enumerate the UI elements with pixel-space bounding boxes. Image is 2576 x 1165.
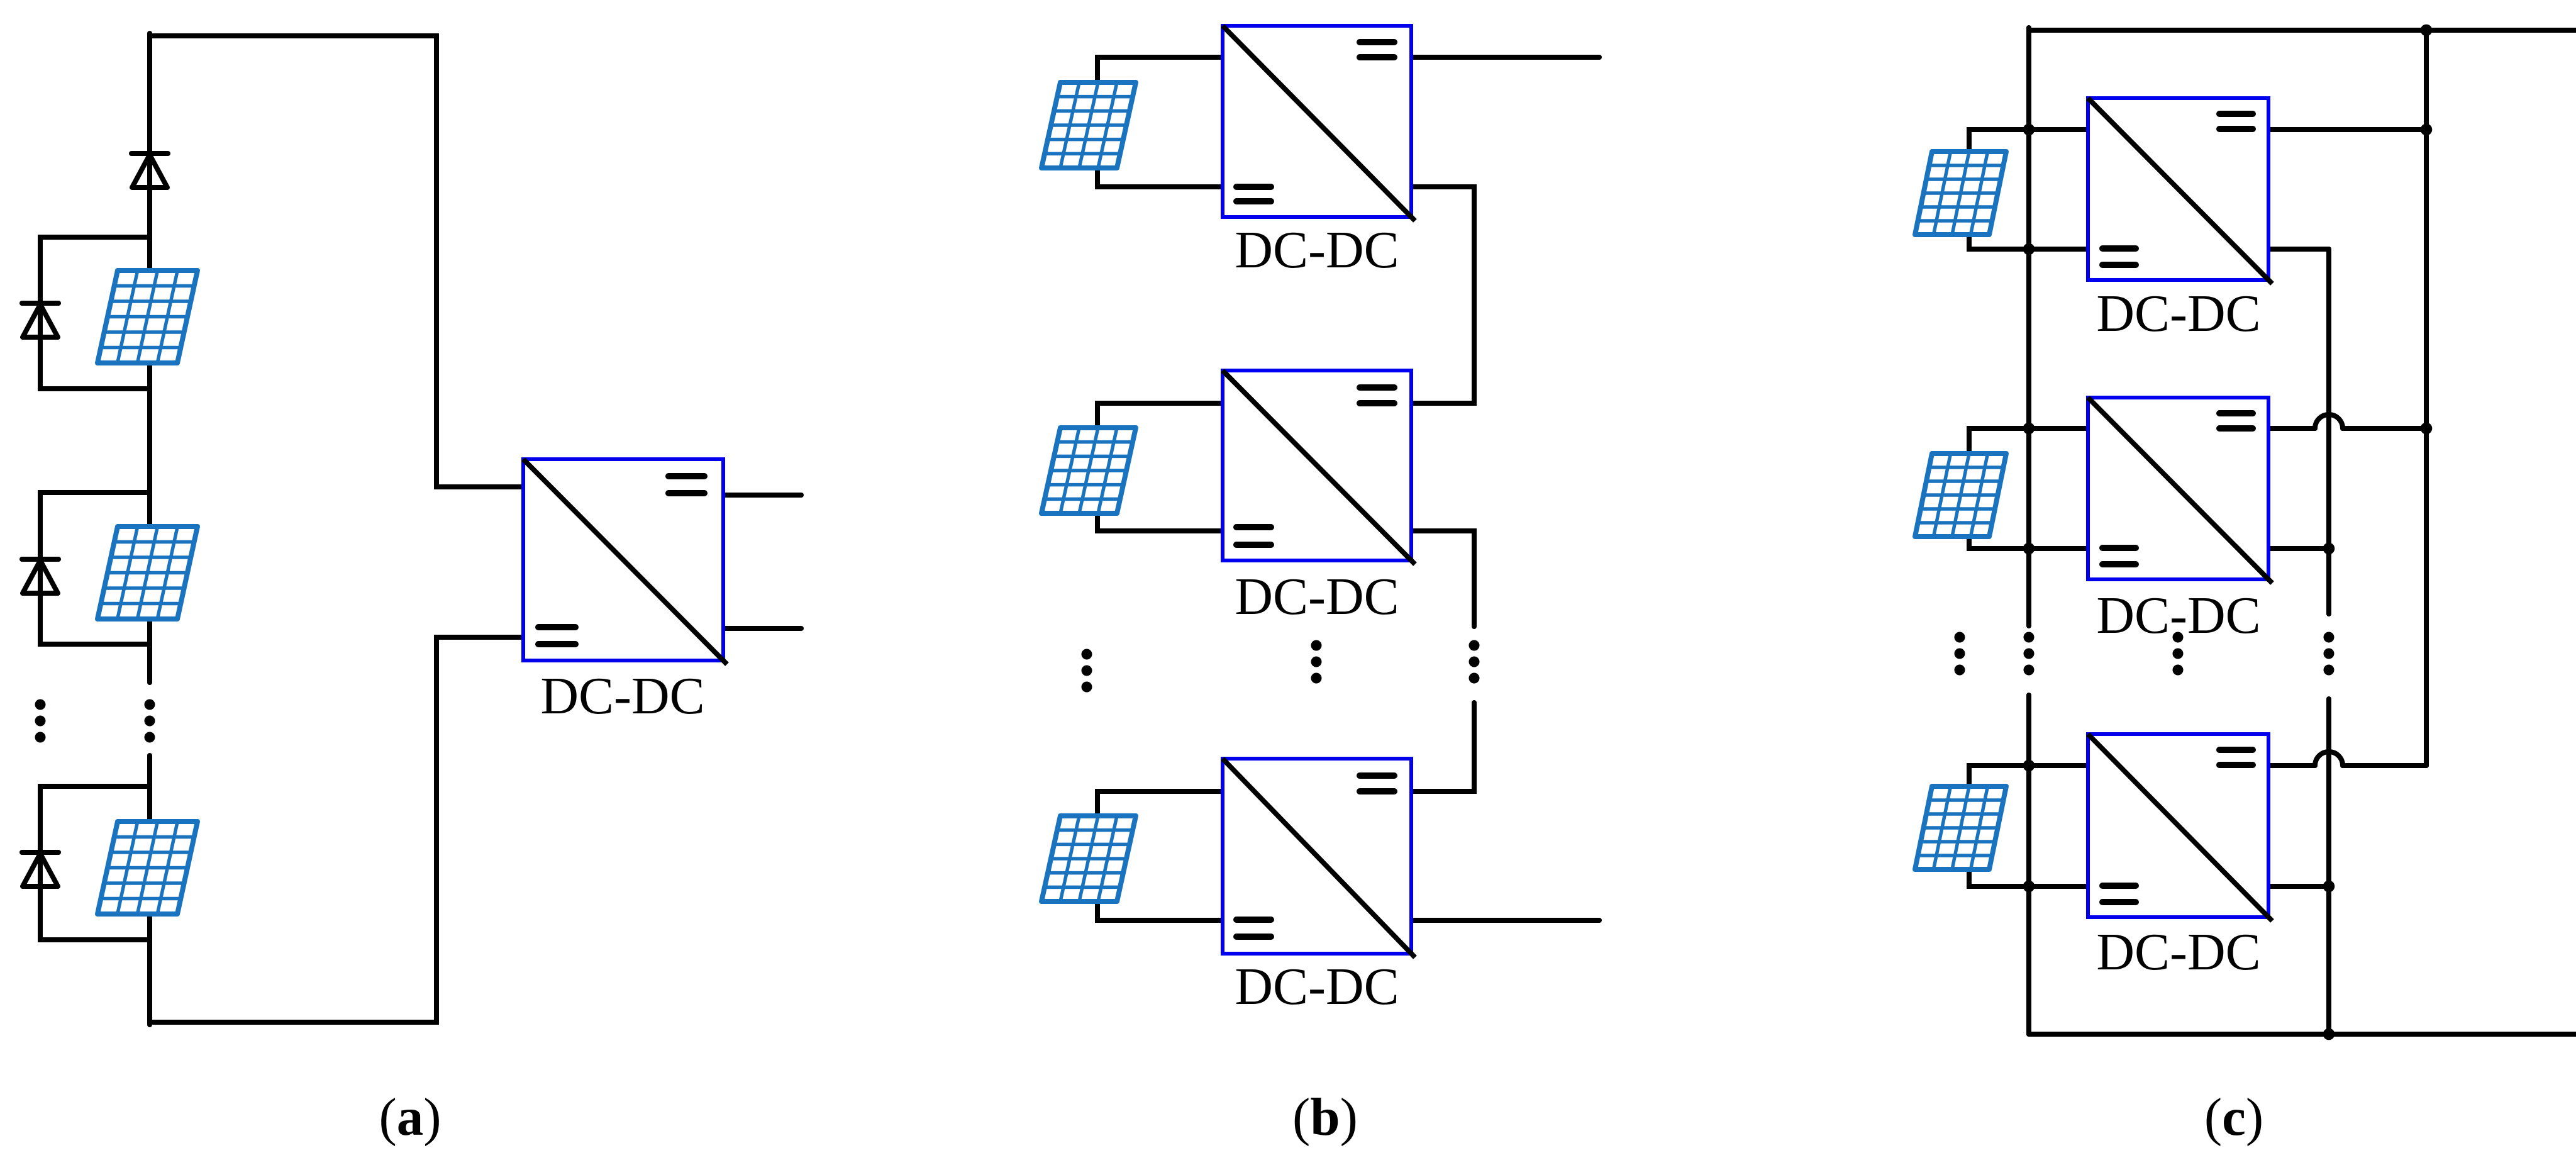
svg-text:(a): (a)	[379, 1088, 441, 1147]
PV module 2 (c)	[1915, 454, 2006, 537]
wire: bypass loop 3 (a)	[40, 786, 150, 940]
DC-DC converter U1 box (a)	[523, 459, 727, 664]
ellipsis dots neg bus column (c)	[2324, 632, 2334, 676]
PV module 1 (b)	[1041, 82, 1136, 168]
wire: bottom bus (c)	[2029, 1032, 2576, 1037]
wire: bypass loop 2 (a)	[40, 493, 150, 644]
PV module 3 (c)	[1915, 786, 2006, 869]
wire: neg output bus upper (c)	[2326, 249, 2331, 614]
wire: unit3 top input (c)	[1969, 766, 2088, 786]
diode D4 bypass diode 3 (a)	[22, 852, 58, 886]
junction dot unit2 top output on pos bus (c)	[2421, 423, 2433, 435]
PV module 1 (a)	[97, 270, 197, 363]
PV module 2 (a)	[97, 527, 197, 619]
wire: unit1 bottom input (b)	[1097, 168, 1223, 187]
wire: top bus (c)	[2029, 28, 2576, 33]
wire: bottom bus (a)	[150, 637, 523, 1022]
wire: bypass loop 1 (a)	[40, 237, 150, 389]
wire: unit3 bottom input (b)	[1097, 901, 1223, 920]
ellipsis dots panel column (c)	[1955, 632, 1965, 676]
svg-text:DC-DC: DC-DC	[540, 667, 704, 725]
wire: unit3 top input (b)	[1097, 791, 1223, 816]
junction dot unit1 top output on pos bus (c)	[2421, 124, 2433, 136]
junction dot unit3 top input (c)	[2023, 760, 2035, 772]
svg-text:DC-DC: DC-DC	[1235, 567, 1399, 626]
ellipsis dots left column (a)	[35, 700, 46, 743]
wire: left input bus upper (c)	[2026, 28, 2031, 626]
junction dot unit2 bottom output on neg bus (c)	[2323, 543, 2335, 555]
PV module 2 (b)	[1041, 428, 1136, 513]
wire hop: unit3 top output over neg bus (c)	[2315, 752, 2343, 766]
junction dot unit2 bottom input (c)	[2023, 543, 2035, 555]
PV module 3 (a)	[97, 822, 197, 914]
wire: unit2 bottom output (c)	[2268, 546, 2329, 551]
wire: unit2 bottom input (c)	[1969, 537, 2088, 549]
ellipsis dots converter column (b)	[1311, 640, 1322, 684]
ellipsis dots panel column (b)	[1082, 649, 1092, 693]
junction dot neg bus on bottom bus (c)	[2323, 1028, 2335, 1040]
wire: left input bus lower (c)	[2026, 695, 2031, 1034]
DC-DC converter B2 box	[1223, 371, 1415, 564]
wire: unit3 bottom output to grid (b)	[1411, 918, 1599, 923]
wire: unit3 bottom output (c)	[2268, 884, 2329, 889]
DC-DC converter C2 box	[2088, 398, 2272, 583]
junction dot unit1 top input (c)	[2023, 124, 2035, 136]
PV module 3 (b)	[1041, 816, 1136, 901]
wire: unit2 top input (b)	[1097, 403, 1223, 428]
wire: PV string vertical upper (a)	[147, 33, 152, 683]
wire hop: unit2 top output over neg bus (c)	[2315, 415, 2343, 428]
wire: unit1 top output to grid (b)	[1411, 55, 1599, 60]
svg-text:(c): (c)	[2204, 1088, 2263, 1147]
wire: unit2 top output right of hop (c)	[2343, 426, 2426, 431]
wire: unit3 top output left of hop (c)	[2268, 763, 2315, 768]
wire: unit2 bottom input (b)	[1097, 513, 1223, 531]
DC-DC converter B3 box	[1223, 759, 1415, 957]
wire: unit3 bottom input (c)	[1969, 869, 2088, 886]
ellipsis dots series-link column (b)	[1469, 640, 1480, 684]
svg-text:DC-DC: DC-DC	[2096, 923, 2260, 981]
DC-DC converter C3 box	[2088, 734, 2272, 921]
svg-text:DC-DC: DC-DC	[1235, 957, 1399, 1016]
wire: unit1 top input (b)	[1097, 57, 1223, 82]
wire: series link unit1-unit2 (b)	[1411, 187, 1474, 403]
wire: PV string vertical lower (a)	[147, 755, 152, 1025]
wire: DC-DC output top (a)	[723, 493, 801, 498]
wire: unit1 top input (c)	[1969, 130, 2088, 152]
junction dot unit3 bottom input (c)	[2023, 881, 2035, 893]
diode D2 bypass diode 1 (a)	[22, 303, 58, 337]
ellipsis dots converter column (c)	[2173, 632, 2184, 676]
wire: unit1 top output (c)	[2268, 127, 2426, 132]
wire: series link unit2-unit3 upper part (b)	[1411, 531, 1474, 627]
DC-DC converter B1 box	[1223, 26, 1415, 221]
wire: unit1 bottom input (c)	[1969, 235, 2088, 249]
wire: unit2 top input (c)	[1969, 428, 2088, 454]
wire: pos output bus (c)	[2424, 30, 2429, 766]
ellipsis dots input bus column (c)	[2024, 632, 2035, 676]
ellipsis dots string column (a)	[145, 700, 155, 743]
junction dot unit1 bottom input (c)	[2023, 243, 2035, 255]
diode D3 bypass diode 2 (a)	[22, 559, 58, 593]
wire: top bus (a)	[150, 36, 523, 487]
wire: unit3 top output right of hop (c)	[2343, 763, 2426, 768]
svg-text:(b): (b)	[1292, 1088, 1358, 1147]
junction dot unit2 top input (c)	[2023, 423, 2035, 435]
wire: DC-DC output bottom (a)	[723, 626, 801, 631]
PV module 1 (c)	[1915, 152, 2006, 235]
wire: series link unit2-unit3 lower part (b)	[1411, 703, 1474, 791]
diode D1 string blocking diode (a)	[131, 153, 168, 187]
junction dot top bus (c)	[2421, 25, 2433, 36]
junction dot unit3 bottom output on neg bus (c)	[2323, 881, 2335, 893]
DC-DC converter C1 box	[2088, 98, 2272, 284]
svg-text:DC-DC: DC-DC	[2096, 284, 2260, 343]
wire: unit1 bottom output to neg bus (c)	[2268, 247, 2329, 252]
svg-text:DC-DC: DC-DC	[1235, 221, 1399, 279]
wire: unit2 top output left of hop (c)	[2268, 426, 2315, 431]
wire: neg output bus lower (c)	[2326, 699, 2331, 1034]
